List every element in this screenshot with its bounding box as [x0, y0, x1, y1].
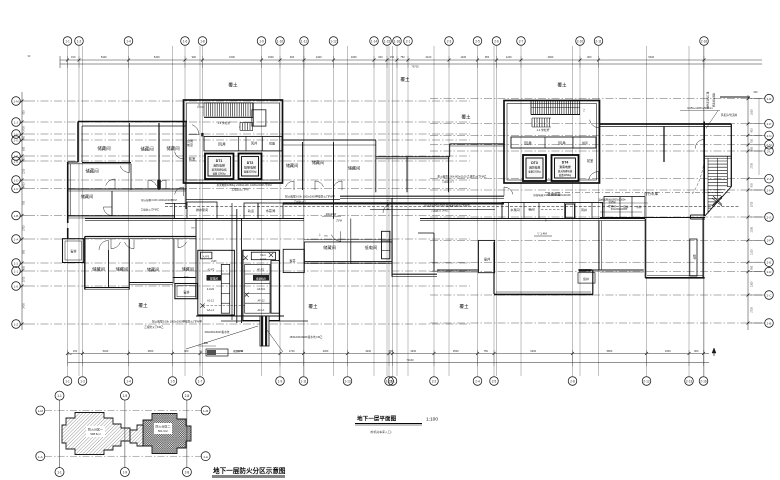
svg-text:窗井: 窗井 — [484, 257, 490, 262]
svg-text:1-16: 1-16 — [394, 40, 401, 44]
svg-text:排烟: 排烟 — [269, 141, 275, 146]
svg-text:1-3: 1-3 — [80, 380, 85, 384]
svg-text:AF-M1: AF-M1 — [257, 287, 265, 291]
svg-text:AJ-12: AJ-12 — [207, 298, 214, 302]
svg-text:乙级防火门FM乙: 乙级防火门FM乙 — [144, 325, 164, 329]
svg-text:76700: 76700 — [411, 64, 419, 68]
svg-text:DT3: DT3 — [531, 161, 538, 165]
svg-text:900: 900 — [751, 183, 754, 188]
svg-text:1-12: 1-12 — [330, 40, 337, 44]
svg-text:1:100: 1:100 — [426, 417, 438, 423]
svg-text:1-M: 1-M — [38, 409, 44, 413]
svg-text:担架电梯 2100x1100 1000x2100h: 担架电梯 2100x1100 1000x2100h — [533, 193, 571, 197]
svg-text:DT4: DT4 — [562, 161, 569, 165]
svg-text:2-E: 2-E — [767, 261, 772, 265]
svg-text:3300: 3300 — [665, 349, 671, 353]
svg-text:5400: 5400 — [154, 55, 160, 59]
svg-text:覆土线双面粉刷: 覆土线双面粉刷 — [706, 92, 710, 109]
svg-text:低电间: 低电间 — [365, 244, 378, 251]
svg-text:1.4 米栏杆: 1.4 米栏杆 — [217, 121, 230, 125]
svg-text:1-15: 1-15 — [384, 40, 391, 44]
svg-text:1-11: 1-11 — [300, 380, 306, 384]
svg-text:1-1: 1-1 — [57, 394, 62, 398]
svg-text:2-B: 2-B — [767, 321, 772, 325]
svg-text:储藏间: 储藏间 — [147, 266, 160, 273]
svg-text:2-11: 2-11 — [595, 40, 601, 44]
svg-text:6200: 6200 — [530, 349, 536, 353]
svg-text:1-1: 1-1 — [14, 269, 19, 273]
svg-text:1.4 米栏杆: 1.4 米栏杆 — [536, 128, 549, 132]
svg-text:覆土: 覆土 — [459, 303, 469, 309]
svg-text:1-9: 1-9 — [123, 471, 128, 475]
svg-text:1200: 1200 — [23, 168, 26, 174]
svg-text:2700: 2700 — [751, 201, 754, 207]
svg-text:2300: 2300 — [751, 226, 754, 232]
svg-text:150: 150 — [389, 349, 394, 353]
svg-text:耐火极限3.00h 800x2100 乙级防火门FM乙: 耐火极限3.00h 800x2100 乙级防火门FM乙 — [437, 175, 486, 179]
svg-text:2-16: 2-16 — [701, 40, 708, 44]
svg-text:2-1: 2-1 — [390, 380, 395, 384]
svg-text:70100: 70100 — [406, 358, 414, 362]
svg-text:1-9: 1-9 — [278, 380, 283, 384]
svg-text:5400: 5400 — [101, 55, 107, 59]
svg-text:柴间: 柴间 — [528, 207, 534, 212]
svg-text:2-C: 2-C — [767, 293, 773, 297]
svg-text:储藏间: 储藏间 — [182, 266, 194, 272]
svg-text:2500: 2500 — [751, 109, 754, 115]
svg-text:900: 900 — [751, 265, 754, 270]
svg-text:1-M: 1-M — [203, 409, 209, 413]
svg-text:2-7: 2-7 — [519, 40, 524, 44]
svg-text:2300: 2300 — [751, 281, 754, 287]
svg-text:风井: 风井 — [251, 141, 257, 146]
svg-text:储藏间: 储藏间 — [85, 168, 98, 175]
svg-text:2900: 2900 — [548, 55, 554, 59]
svg-text:兼无障碍电梯: 兼无障碍电梯 — [558, 169, 573, 173]
svg-text:1200: 1200 — [506, 55, 512, 59]
svg-text:窗井: 窗井 — [183, 290, 189, 295]
svg-text:900: 900 — [23, 157, 26, 162]
svg-text:(非机动车库入口): (非机动车库入口) — [370, 430, 392, 434]
svg-text:5400: 5400 — [103, 349, 109, 353]
svg-text:消防电梯: 消防电梯 — [213, 163, 225, 168]
svg-text:储藏间: 储藏间 — [323, 244, 336, 251]
svg-text:900: 900 — [290, 55, 295, 59]
svg-text:900: 900 — [694, 349, 699, 353]
svg-text:750: 750 — [23, 200, 26, 205]
svg-text:3500: 3500 — [453, 349, 459, 353]
svg-text:2-R: 2-R — [767, 97, 773, 101]
svg-text:乙级防火门FM乙: 乙级防火门FM乙 — [431, 209, 449, 213]
svg-text:覆土: 覆土 — [228, 82, 238, 88]
svg-text:1-14: 1-14 — [371, 40, 378, 44]
svg-text:2-16: 2-16 — [700, 380, 707, 384]
svg-text:1-11: 1-11 — [301, 40, 307, 44]
svg-text:5400: 5400 — [648, 55, 654, 59]
svg-text:乙级防火门: 乙级防火门 — [442, 180, 455, 184]
svg-text:2100: 2100 — [751, 249, 754, 255]
svg-text:防火分区二: 防火分区二 — [155, 424, 170, 429]
svg-text:2-3: 2-3 — [447, 40, 452, 44]
svg-text:1-D: 1-D — [14, 178, 20, 182]
svg-text:排风: 排风 — [582, 141, 588, 145]
svg-text:1-2: 1-2 — [14, 261, 19, 265]
svg-text:500: 500 — [204, 342, 209, 345]
svg-text:轨道: 轨道 — [248, 208, 254, 213]
svg-text:1-1: 1-1 — [65, 380, 70, 384]
svg-text:风井: 风井 — [581, 207, 587, 212]
svg-text:1-9: 1-9 — [123, 394, 128, 398]
svg-text:900: 900 — [23, 110, 26, 115]
svg-text:900: 900 — [751, 128, 754, 133]
svg-text:2-L: 2-L — [767, 149, 772, 153]
svg-text:耐火极限3.00h 1000x2000甲级防火门FM甲: 耐火极限3.00h 1000x2000甲级防火门FM甲 — [285, 195, 335, 199]
svg-text:900: 900 — [587, 55, 592, 59]
svg-text:5800: 5800 — [607, 349, 613, 353]
svg-text:乙级防火门: 乙级防火门 — [294, 200, 307, 204]
svg-text:2700: 2700 — [23, 276, 26, 282]
svg-text:湿式报警阀间900x2000h: 湿式报警阀间900x2000h — [598, 198, 626, 202]
svg-text:2-G: 2-G — [766, 215, 772, 219]
svg-text:排水泵间900x2000 柴油发电机房门FM甲: 排水泵间900x2000 柴油发电机房门FM甲 — [424, 204, 470, 208]
svg-text:覆土: 覆土 — [308, 303, 318, 309]
svg-text:耐火极限3.00h 1000x2000甲级防火门FM甲: 耐火极限3.00h 1000x2000甲级防火门FM甲 — [152, 320, 202, 324]
svg-text:2-2: 2-2 — [432, 380, 437, 384]
svg-text:2-6: 2-6 — [494, 40, 499, 44]
svg-text:750: 750 — [751, 138, 754, 143]
svg-text:1-4: 1-4 — [126, 40, 131, 44]
svg-text:2700: 2700 — [751, 163, 754, 169]
svg-text:兼无障碍电梯: 兼无障碍电梯 — [211, 168, 227, 172]
svg-text:1-8: 1-8 — [200, 40, 205, 44]
svg-text:4F-P2: 4F-P2 — [257, 268, 265, 272]
svg-text:AA-L1: AA-L1 — [207, 308, 215, 312]
svg-text:1-M: 1-M — [13, 99, 19, 103]
svg-text:600: 600 — [751, 146, 754, 151]
svg-text:1-4: 1-4 — [126, 380, 131, 384]
svg-text:598.6m²: 598.6m² — [90, 432, 100, 436]
svg-text:1-6: 1-6 — [183, 40, 188, 44]
svg-text:1-A: 1-A — [203, 455, 208, 459]
svg-text:1-J: 1-J — [14, 120, 19, 124]
svg-text:2-5: 2-5 — [492, 380, 497, 384]
svg-text:900: 900 — [378, 55, 383, 59]
svg-text:2700: 2700 — [751, 307, 754, 313]
svg-text:900: 900 — [23, 249, 26, 254]
svg-text:自行车库: 自行车库 — [644, 191, 659, 196]
svg-text:1-A: 1-A — [14, 237, 19, 241]
svg-text:储藏间: 储藏间 — [97, 145, 110, 152]
svg-text:前室: 前室 — [189, 156, 196, 161]
svg-text:窗井: 窗井 — [693, 254, 697, 260]
svg-text:2x0K: 2x0K — [211, 260, 217, 263]
svg-text:1-9: 1-9 — [259, 40, 264, 44]
svg-text:AJ-P0: AJ-P0 — [203, 255, 210, 258]
svg-text:900x2000: 900x2000 — [326, 213, 337, 216]
svg-text:1-10: 1-10 — [277, 40, 284, 44]
svg-text:150: 150 — [73, 349, 78, 353]
svg-text:排烟机房: 排烟机房 — [256, 277, 267, 281]
svg-text:消防电梯: 消防电梯 — [529, 165, 541, 170]
svg-text:2-P: 2-P — [767, 122, 772, 126]
svg-text:750: 750 — [400, 55, 405, 59]
svg-text:窗井: 窗井 — [583, 276, 589, 281]
svg-text:水泵间: 水泵间 — [510, 207, 519, 212]
svg-text:1-0: 1-0 — [14, 284, 19, 288]
svg-text:乙级防火门FM: 乙级防火门FM — [232, 188, 249, 192]
svg-text:1700: 1700 — [289, 349, 295, 353]
svg-text:1-E: 1-E — [14, 159, 19, 163]
svg-text:1400: 1400 — [460, 55, 466, 59]
svg-text:2-13: 2-13 — [686, 380, 693, 384]
svg-text:2-8: 2-8 — [570, 380, 575, 384]
svg-text:▽ 1.4M: ▽ 1.4M — [537, 232, 547, 236]
svg-text:700h: 700h — [184, 277, 190, 279]
svg-text:750: 750 — [484, 349, 489, 353]
svg-text:风井: 风井 — [524, 140, 532, 146]
svg-text:DT2: DT2 — [247, 161, 254, 165]
svg-text:1-B: 1-B — [14, 214, 19, 218]
svg-text:3300: 3300 — [351, 55, 357, 59]
svg-text:储藏间: 储藏间 — [92, 266, 105, 273]
svg-text:担架电梯: 担架电梯 — [244, 165, 256, 170]
svg-text:2-4: 2-4 — [475, 380, 480, 384]
svg-text:2-J: 2-J — [767, 177, 772, 181]
svg-text:前室: 前室 — [187, 142, 193, 147]
svg-text:担架电梯1050kg 2100x1100, 1000x210: 担架电梯1050kg 2100x1100, 1000x2100h 甲FM — [216, 183, 271, 187]
svg-text:风井: 风井 — [218, 141, 226, 147]
svg-text:1-5: 1-5 — [170, 380, 175, 384]
svg-text:2-D: 2-D — [767, 270, 773, 274]
svg-text:2-8: 2-8 — [185, 394, 190, 398]
svg-text:1500: 1500 — [229, 55, 235, 59]
svg-text:储藏间: 储藏间 — [286, 162, 299, 169]
svg-text:2-5: 2-5 — [475, 40, 480, 44]
svg-text:600: 600 — [23, 265, 26, 270]
svg-text:上: 上 — [198, 103, 201, 107]
svg-text:2400: 2400 — [23, 126, 26, 132]
svg-text:储藏间: 储藏间 — [348, 165, 361, 172]
svg-text:防火分区一: 防火分区一 — [88, 427, 103, 432]
svg-text:AF-L1: AF-L1 — [257, 308, 265, 312]
svg-text:1-C: 1-C — [14, 187, 20, 191]
svg-text:600x600x600h集水坑: 600x600x600h集水坑 — [205, 330, 230, 334]
svg-text:2-10: 2-10 — [577, 40, 584, 44]
svg-text:1-2: 1-2 — [77, 40, 82, 44]
svg-text:1-1: 1-1 — [57, 471, 62, 475]
svg-text:窗井: 窗井 — [289, 258, 295, 263]
svg-text:排烟井 50: 排烟井 50 — [233, 349, 244, 353]
svg-text:地下一层防火分区示意图: 地下一层防火分区示意图 — [213, 466, 286, 475]
svg-text:S-2X0: S-2X0 — [260, 258, 267, 260]
svg-text:1-A: 1-A — [38, 455, 43, 459]
svg-text:储藏间: 储藏间 — [116, 266, 129, 273]
svg-text:900: 900 — [192, 55, 197, 59]
svg-text:2-N: 2-N — [767, 134, 772, 138]
svg-text:2400: 2400 — [23, 303, 26, 309]
svg-text:561.9m²: 561.9m² — [158, 429, 168, 433]
svg-text:1-G: 1-G — [13, 138, 19, 142]
svg-text:1-13: 1-13 — [344, 380, 351, 384]
svg-text:配电间: 配电间 — [210, 277, 218, 281]
svg-text:前室: 前室 — [587, 158, 593, 163]
svg-text:750: 750 — [23, 135, 26, 140]
svg-text:1-7: 1-7 — [198, 380, 203, 384]
svg-text:载重1050kg: 载重1050kg — [244, 170, 257, 174]
svg-text:2-8: 2-8 — [185, 471, 190, 475]
svg-text:2-12: 2-12 — [643, 380, 650, 384]
svg-text:150: 150 — [71, 55, 76, 59]
svg-text:2400: 2400 — [316, 55, 322, 59]
svg-text:1-Z: 1-Z — [14, 322, 19, 326]
svg-text:乘客电梯: 乘客电梯 — [559, 164, 571, 169]
svg-text:2-H: 2-H — [767, 188, 772, 192]
svg-text:水井: 水井 — [636, 205, 642, 209]
svg-text:乙级防火门FM乙: 乙级防火门FM乙 — [141, 208, 160, 212]
svg-text:600x600x600h: 600x600x600h — [611, 208, 628, 211]
svg-text:3400: 3400 — [365, 349, 371, 353]
svg-text:2100: 2100 — [426, 55, 432, 59]
svg-text:风井: 风井 — [558, 140, 566, 146]
svg-text:上: 上 — [583, 108, 586, 112]
svg-text:2-1: 2-1 — [406, 40, 411, 44]
svg-text:预留风井管道: 预留风井管道 — [712, 93, 716, 108]
svg-text:覆土: 覆土 — [138, 302, 148, 308]
svg-text:3300: 3300 — [410, 349, 416, 353]
svg-text:600: 600 — [23, 146, 26, 151]
svg-text:2-F: 2-F — [767, 239, 772, 243]
svg-text:5400: 5400 — [23, 182, 26, 188]
svg-text:窗井: 窗井 — [70, 249, 76, 254]
svg-text:地下一层平面图: 地下一层平面图 — [357, 415, 397, 423]
svg-text:900: 900 — [184, 349, 189, 353]
svg-text:4J-M1: 4J-M1 — [207, 287, 215, 291]
svg-text:3300: 3300 — [323, 349, 329, 353]
svg-text:覆土: 覆土 — [557, 82, 567, 88]
svg-text:1500x600x600h集水坑 FM乙: 1500x600x600h集水坑 FM乙 — [289, 335, 323, 339]
svg-text:排水泵间: 排水泵间 — [196, 207, 208, 212]
svg-text:4J-P2: 4J-P2 — [208, 268, 215, 272]
svg-text:1500: 1500 — [268, 55, 274, 59]
svg-text:950: 950 — [485, 55, 490, 59]
svg-text:储藏间: 储藏间 — [140, 146, 153, 153]
svg-text:2700: 2700 — [23, 225, 26, 231]
svg-text:水泵间: 水泵间 — [266, 208, 276, 213]
svg-text:AF-12: AF-12 — [257, 298, 265, 302]
svg-text:3600: 3600 — [148, 349, 154, 353]
svg-text:储藏间: 储藏间 — [81, 193, 94, 200]
svg-text:K2x1: K2x1 — [260, 254, 266, 257]
svg-text:耐火极限3.00h 1000x2000甲FM: 耐火极限3.00h 1000x2000甲FM — [141, 198, 176, 202]
svg-text:DT1: DT1 — [216, 159, 223, 163]
svg-text:储藏间: 储藏间 — [312, 159, 325, 166]
svg-text:覆土: 覆土 — [461, 114, 471, 120]
svg-text:覆土: 覆土 — [400, 76, 410, 82]
svg-text:风机房/管道井: 风机房/管道井 — [721, 113, 738, 117]
svg-text:900: 900 — [754, 91, 759, 94]
svg-text:150: 150 — [390, 55, 395, 59]
svg-text:乙FM: 乙FM — [336, 218, 342, 222]
svg-text:储藏间: 储藏间 — [166, 145, 179, 152]
svg-text:1-1: 1-1 — [65, 40, 70, 44]
